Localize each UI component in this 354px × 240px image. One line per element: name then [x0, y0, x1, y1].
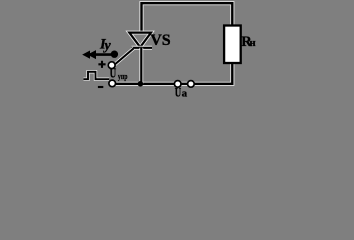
resistor Rn body: [224, 26, 241, 64]
svg-text:U: U: [110, 67, 117, 82]
svg-text:упр: упр: [118, 71, 128, 81]
gate terminal circle (upper): [108, 62, 115, 69]
svg-text:н: н: [249, 37, 256, 49]
svg-text:а: а: [182, 88, 188, 100]
Iy arrowhead (double, pointing left): [82, 51, 90, 59]
wire: resistor bottom lead and bottom run - white halo: [112, 63, 232, 84]
wire: cathode lead down to bottom run: [139, 48, 143, 84]
wire: main loop top (anode riser, top run, right drop): [142, 3, 233, 33]
svg-text:U: U: [175, 85, 182, 100]
wire: main loop top (anode riser, top run, right drop) - white halo: [142, 3, 233, 33]
thyristor VS triangle halo: [129, 33, 151, 48]
cathode-return terminal circle (lower): [109, 80, 116, 87]
terminal circle B (right, on bottom run): [188, 81, 195, 88]
minus sign: [98, 86, 103, 88]
thyristor VS triangle (anode at top, apex down): [129, 33, 151, 48]
control source: pulse waveform symbol: [84, 72, 110, 79]
wire: resistor bottom lead and bottom run: [112, 63, 232, 84]
svg-text:VS: VS: [150, 32, 171, 49]
thyristor cathode bar halo: [132, 46, 153, 50]
plus sign: [98, 61, 105, 68]
Iy current arrow shaft with end dot: [90, 53, 113, 56]
terminal circle A (left, on bottom run): [174, 81, 181, 88]
junction node dot on bottom run: [138, 81, 144, 87]
svg-text:у: у: [103, 38, 112, 53]
thyristor cathode bar: [132, 47, 153, 49]
wire: gate lead diagonal: [115, 48, 134, 64]
